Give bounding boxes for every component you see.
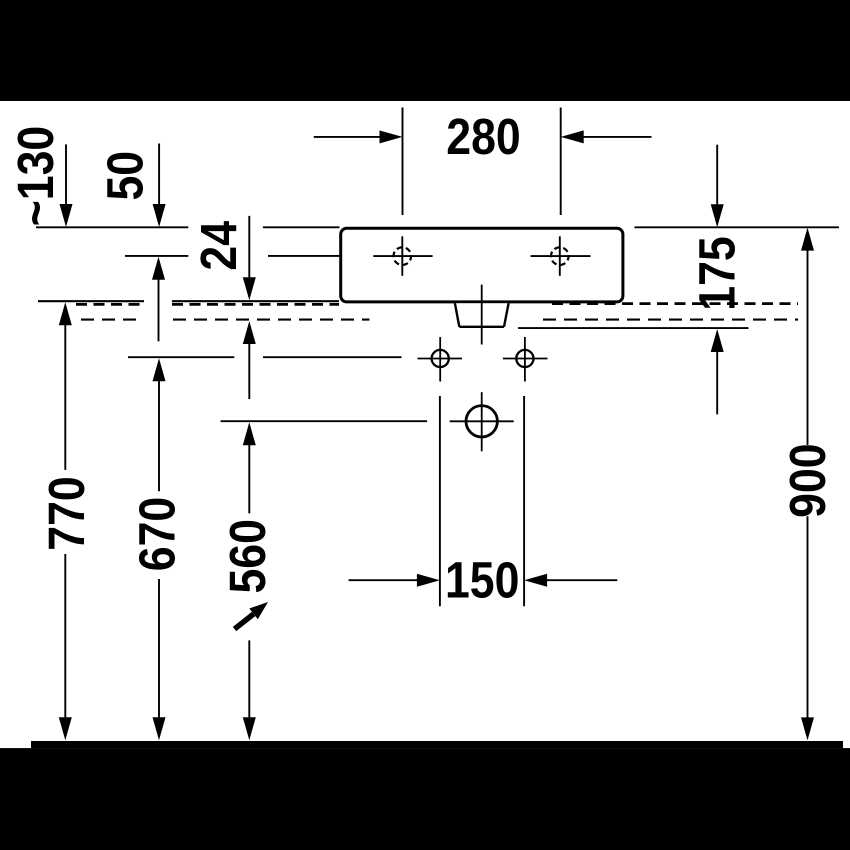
drain hole cross vertical	[481, 392, 483, 451]
washbasin body outline	[341, 228, 623, 302]
right fixing hole cross vertical	[524, 337, 526, 382]
dim 50 lower arrow shaft	[158, 279, 160, 342]
dim 770 upper arrowhead (up to basin underside)	[59, 302, 72, 325]
drain hole circle	[466, 406, 497, 437]
left fixing hole cross horizontal	[418, 358, 463, 360]
svg-text:900: 900	[780, 443, 836, 517]
dim 24 lower arrow shaft	[248, 343, 250, 399]
left fixing hole cross vertical	[439, 337, 441, 382]
dim 770 lower shaft	[64, 554, 66, 718]
dim 175 lower arrow shaft	[716, 351, 718, 414]
drain outlet trapezoid bottom side	[459, 326, 504, 328]
dim 900 lower arrowhead (down to floor)	[801, 717, 814, 740]
dim 280 right arrow shaft	[583, 136, 652, 138]
hidden dashed line A, left run part 2	[172, 303, 339, 306]
drain outlet trapezoid left side	[455, 303, 459, 327]
dim 280 right arrowhead	[561, 130, 584, 143]
dim 560 lower shaft	[248, 640, 250, 718]
drain outlet center line	[481, 285, 483, 345]
svg-text:50: 50	[98, 151, 154, 201]
drain outlet trapezoid fill	[455, 303, 509, 327]
dim 150 right arrow shaft	[546, 579, 617, 581]
svg-text:770: 770	[39, 476, 95, 550]
right fixing hole circle	[516, 350, 533, 367]
dim 280 left arrow shaft	[314, 136, 381, 138]
hidden dashed line B, left run part 1	[81, 319, 142, 321]
dim 560 upper shaft	[248, 444, 250, 513]
reference line: basin underside level, segment 2	[172, 300, 339, 302]
right faucet hole crosshair horizontal line	[531, 255, 591, 257]
dim 24 upper arrow shaft	[248, 216, 250, 278]
dim 670 upper shaft	[158, 380, 160, 491]
dim ~130 upper arrowhead (down to basin top)	[60, 204, 73, 227]
hidden dashed line A, right run	[552, 302, 798, 305]
top black band (mirror above basin)	[0, 0, 850, 101]
dim 175 upper arrowhead (down to basin top level)	[711, 204, 724, 227]
svg-text:280: 280	[446, 109, 520, 165]
svg-text:670: 670	[130, 497, 186, 571]
dim 150 left arrow shaft	[349, 579, 418, 581]
svg-text:24: 24	[191, 221, 247, 271]
dim 50 lower arrowhead (up to faucet axis)	[152, 257, 165, 280]
left faucet hole dashed circle	[394, 247, 412, 265]
dim 150 left extension line	[439, 396, 441, 606]
dim 670 upper arrowhead (up to fixing-hole level)	[153, 358, 166, 381]
dim 770 upper shaft	[64, 324, 66, 470]
dim 280 right extension line	[560, 108, 562, 216]
dim 900 lower shaft	[807, 516, 809, 718]
dim 670 lower arrowhead (down to floor)	[153, 717, 166, 740]
svg-text:150: 150	[445, 553, 519, 609]
left faucet hole crosshair horizontal line	[373, 255, 432, 257]
dim 560 upper arrowhead (up to drain level)	[243, 422, 256, 445]
drain direction pointer shaft	[235, 614, 254, 629]
hidden dashed line A, left run part 1	[76, 303, 144, 306]
left faucet hole crosshair vertical line	[401, 236, 403, 275]
svg-text:~130: ~130	[8, 126, 64, 226]
reference line: basin top level, left segment 1	[36, 226, 188, 228]
drain direction pointer arrowhead	[249, 602, 268, 619]
reference line: basin top level, right segment	[635, 226, 840, 228]
svg-text:560: 560	[220, 519, 276, 593]
reference line: faucet axis level, segment 2	[268, 255, 340, 257]
hidden dashed line B, left run part 2	[173, 319, 369, 321]
dim 50 upper arrowhead (down to basin top)	[153, 204, 166, 227]
drain outlet trapezoid right side	[504, 303, 509, 327]
floor line (thick)	[31, 741, 843, 748]
reference line: faucet axis level, segment 1	[125, 255, 188, 257]
dim 560 lower arrowhead (down to floor)	[243, 717, 256, 740]
reference line: siphon level (175 ref)	[518, 327, 749, 329]
dim 280 left extension line	[402, 108, 404, 216]
dim 175 lower arrowhead (up to siphon level)	[711, 329, 724, 352]
dim 770 lower arrowhead (down to floor)	[59, 717, 72, 740]
left fixing hole circle	[432, 350, 449, 367]
reference line: drain level (560 ref)	[221, 420, 428, 422]
right faucet hole dashed circle	[551, 247, 569, 265]
dim 150 right arrowhead	[524, 574, 547, 587]
right faucet hole crosshair vertical line	[559, 236, 561, 275]
reference line: basin top level, left segment 2	[263, 226, 340, 228]
dim ~130 upper arrow shaft	[65, 144, 67, 205]
dim 50 upper arrow shaft	[158, 144, 160, 206]
dim 175 upper arrow shaft	[716, 145, 718, 206]
dim 150 right extension line	[523, 396, 525, 606]
reference line: fixing-hole level (670 ref), segment 1	[128, 356, 234, 358]
hidden dashed line B, right run	[543, 319, 798, 321]
svg-text:175: 175	[690, 236, 746, 310]
dim 900 upper arrowhead (up to basin top level)	[801, 228, 814, 251]
reference line: basin underside level, segment 1	[38, 300, 144, 302]
right fixing hole cross horizontal	[503, 358, 548, 360]
dim 900 upper shaft	[807, 250, 809, 445]
dim 24 upper arrowhead (down to basin underside)	[243, 277, 256, 300]
dim 670 lower shaft	[158, 579, 160, 718]
dim 280 left arrowhead	[380, 130, 403, 143]
dim 150 left arrowhead	[417, 574, 440, 587]
reference line: fixing-hole level (670 ref), segment 2	[263, 356, 402, 358]
bottom black band (floor)	[0, 748, 850, 850]
dim 24 lower arrowhead (up to dashed line B)	[243, 321, 256, 344]
drain hole cross horizontal	[450, 420, 514, 422]
